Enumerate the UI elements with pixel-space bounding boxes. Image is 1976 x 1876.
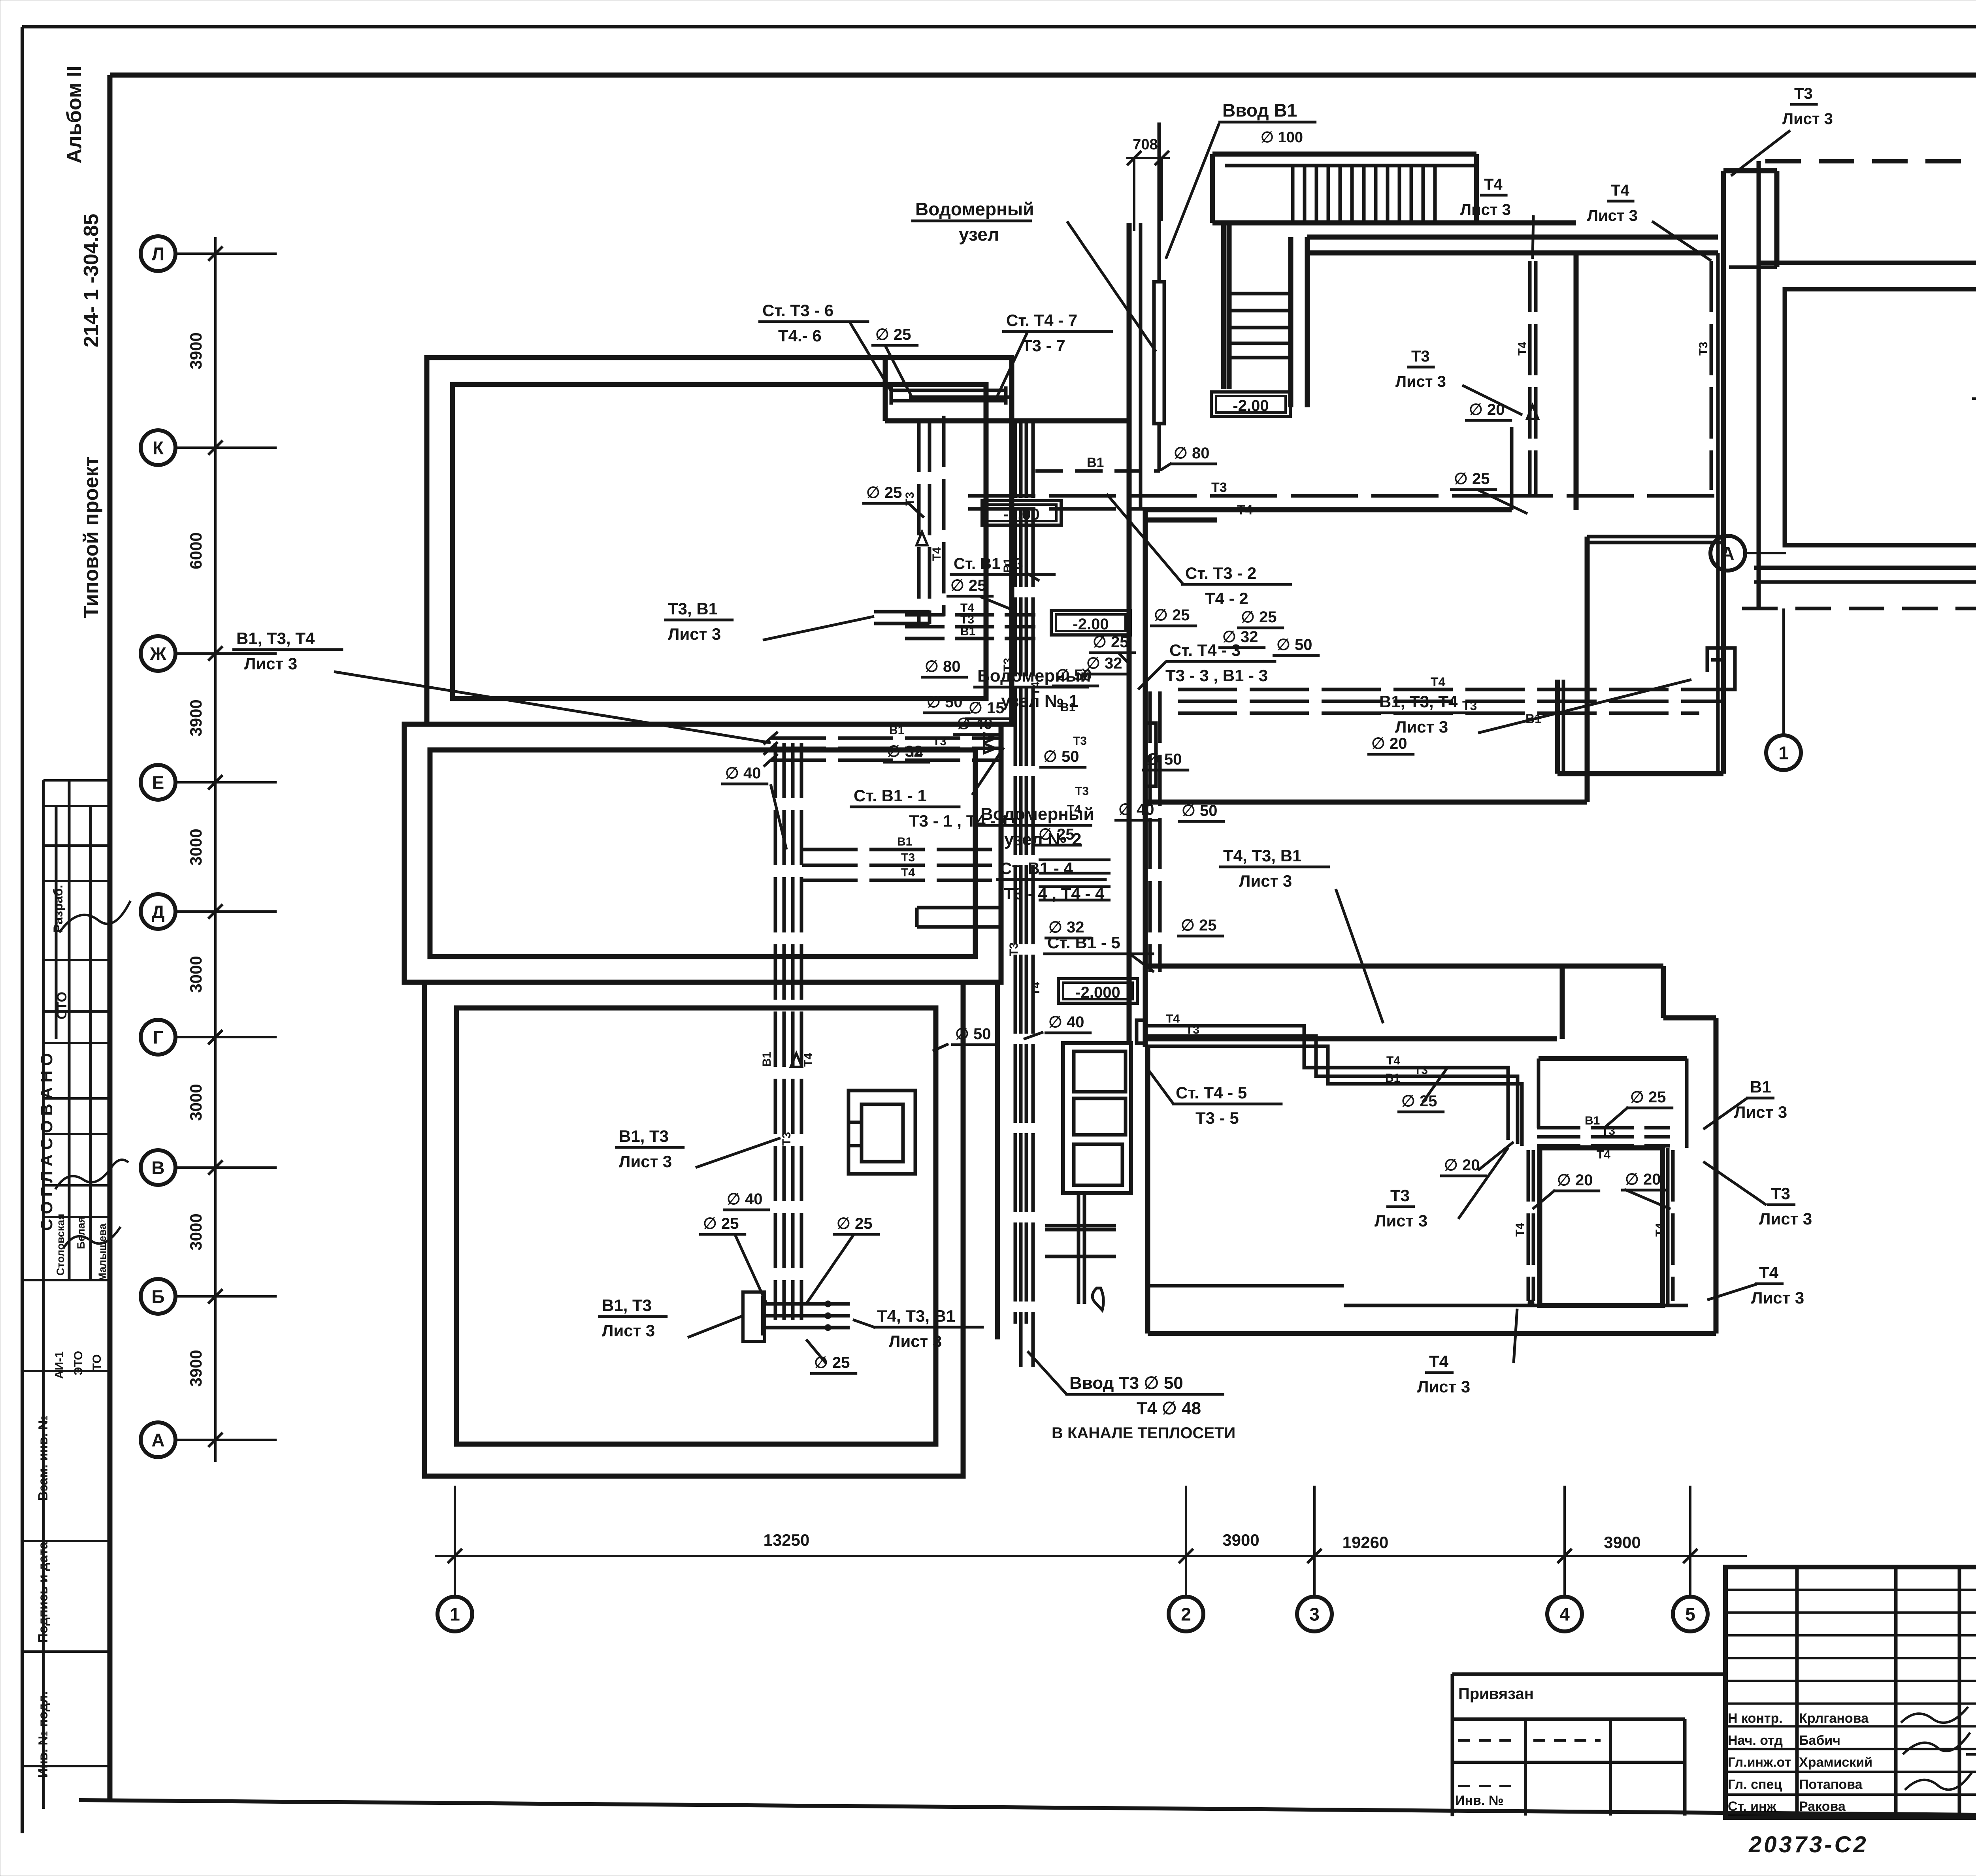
svg-text:∅ 50: ∅ 50	[1182, 802, 1217, 819]
svg-text:Лист 3: Лист 3	[889, 1332, 942, 1350]
svg-text:∅ 40: ∅ 40	[725, 765, 761, 782]
svg-text:Л: Л	[152, 244, 164, 264]
svg-text:∅ 25: ∅ 25	[1630, 1089, 1666, 1106]
svg-text:∅ 20: ∅ 20	[1371, 735, 1407, 752]
svg-text:∅ 25: ∅ 25	[866, 484, 902, 501]
svg-text:Ст. Т4 - 7: Ст. Т4 - 7	[1006, 311, 1077, 330]
svg-text:∅ 25: ∅ 25	[875, 326, 911, 343]
svg-text:∅ 50: ∅ 50	[955, 1025, 991, 1043]
svg-text:Ст. В1 - 4: Ст. В1 - 4	[1000, 859, 1073, 878]
svg-text:Т4: Т4	[1237, 503, 1253, 518]
svg-text:-2.00: -2.00	[1073, 616, 1109, 633]
svg-text:Б: Б	[151, 1286, 164, 1307]
svg-text:Т4: Т4	[1516, 342, 1529, 356]
svg-text:Т3: Т3	[1794, 85, 1813, 102]
svg-text:В1: В1	[889, 724, 904, 737]
svg-text:∅ 25: ∅ 25	[1154, 606, 1190, 624]
svg-text:Т3: Т3	[1601, 1124, 1615, 1138]
svg-text:1: 1	[1778, 743, 1789, 763]
svg-text:∅ 25: ∅ 25	[703, 1215, 739, 1232]
svg-text:∅ 50: ∅ 50	[1043, 748, 1079, 765]
svg-text:Крлганова: Крлганова	[1799, 1711, 1869, 1726]
svg-text:Инв. № подл.: Инв. № подл.	[36, 1691, 50, 1778]
svg-text:Т3 - 3 , В1 - 3: Т3 - 3 , В1 - 3	[1165, 666, 1268, 685]
svg-text:1: 1	[450, 1604, 460, 1625]
svg-text:∅ 25: ∅ 25	[1241, 608, 1276, 626]
svg-text:В КАНАЛЕ ТЕПЛОСЕТИ: В КАНАЛЕ ТЕПЛОСЕТИ	[1052, 1424, 1235, 1442]
svg-text:∅ 40: ∅ 40	[1048, 1013, 1084, 1031]
svg-text:Храмиский: Храмиский	[1799, 1755, 1872, 1770]
svg-text:А: А	[151, 1430, 164, 1450]
svg-text:В1, Т3, Т4: В1, Т3, Т4	[236, 629, 315, 648]
svg-text:ТО: ТО	[91, 1354, 104, 1371]
svg-text:Т4: Т4	[901, 866, 915, 879]
svg-text:3900: 3900	[1222, 1531, 1259, 1549]
svg-text:узел: узел	[959, 224, 999, 245]
svg-text:Д: Д	[152, 902, 165, 922]
svg-text:Водомерный: Водомерный	[977, 666, 1091, 686]
svg-text:Лист 3: Лист 3	[1395, 373, 1446, 390]
svg-text:Т3: Т3	[1414, 1064, 1428, 1077]
svg-text:В1: В1	[897, 835, 912, 848]
svg-text:Т3, В1: Т3, В1	[668, 599, 718, 618]
svg-text:Т3: Т3	[960, 613, 974, 626]
svg-text:Лист 3: Лист 3	[1460, 201, 1511, 218]
svg-text:В1, Т3, Т4: В1, Т3, Т4	[1379, 692, 1458, 711]
svg-text:∅ 40: ∅ 40	[727, 1190, 762, 1208]
svg-text:Привязан: Привязан	[1458, 1685, 1534, 1703]
svg-text:В1: В1	[1385, 1072, 1400, 1085]
svg-text:Малышева: Малышева	[96, 1223, 108, 1282]
svg-text:∅ 15: ∅ 15	[969, 699, 1004, 717]
svg-text:В: В	[151, 1158, 164, 1178]
svg-text:Т3: Т3	[1411, 348, 1430, 365]
svg-text:3900: 3900	[187, 1350, 205, 1386]
svg-text:узел № 1: узел № 1	[1001, 691, 1079, 711]
svg-text:Т3: Т3	[1186, 1023, 1199, 1036]
svg-text:Т3: Т3	[1211, 480, 1227, 495]
svg-text:3900: 3900	[187, 699, 205, 736]
svg-text:В1, Т3: В1, Т3	[619, 1127, 669, 1145]
svg-text:С О Г Л А С О В А Н О: С О Г Л А С О В А Н О	[37, 1053, 56, 1231]
svg-text:∅ 32: ∅ 32	[887, 743, 922, 760]
svg-text:∅ 25: ∅ 25	[837, 1215, 872, 1232]
svg-text:Гл. спец: Гл. спец	[1728, 1777, 1782, 1792]
svg-text:В1: В1	[760, 1052, 773, 1067]
svg-text:3900: 3900	[187, 332, 205, 369]
svg-text:Лист 3: Лист 3	[602, 1321, 655, 1340]
svg-text:Т3: Т3	[1075, 785, 1089, 798]
svg-text:3900: 3900	[1604, 1533, 1640, 1552]
svg-text:Н контр.: Н контр.	[1728, 1711, 1783, 1726]
svg-text:Бабич: Бабич	[1799, 1733, 1840, 1748]
svg-text:∅ 20: ∅ 20	[1469, 401, 1505, 418]
svg-text:Т4 - 2: Т4 - 2	[1205, 589, 1248, 608]
svg-text:Т4: Т4	[1029, 982, 1042, 996]
svg-text:Ст. В1 - 1: Ст. В1 - 1	[854, 786, 927, 805]
svg-text:Лист 3: Лист 3	[1751, 1288, 1804, 1307]
svg-text:3000: 3000	[187, 1084, 205, 1121]
svg-text:Т4: Т4	[960, 601, 974, 614]
svg-text:∅ 32: ∅ 32	[1048, 919, 1084, 936]
svg-text:3: 3	[1309, 1604, 1320, 1625]
svg-text:∅ 32: ∅ 32	[1222, 628, 1258, 646]
svg-text:В1: В1	[960, 625, 975, 638]
svg-text:-2.00: -2.00	[1003, 506, 1039, 523]
svg-text:Белая: Белая	[75, 1217, 87, 1249]
svg-text:Ст. инж: Ст. инж	[1728, 1799, 1777, 1814]
svg-text:Потапова: Потапова	[1799, 1777, 1863, 1792]
svg-text:Т4: Т4	[1484, 176, 1503, 193]
svg-text:Т4.- 6: Т4.- 6	[778, 326, 822, 345]
svg-text:3000: 3000	[187, 829, 205, 865]
svg-text:Г: Г	[153, 1027, 163, 1048]
svg-text:-2.00: -2.00	[1233, 397, 1269, 414]
svg-text:А: А	[1721, 543, 1734, 564]
svg-text:Подпись и дата: Подпись и дата	[36, 1542, 50, 1643]
svg-text:13250: 13250	[764, 1531, 810, 1549]
svg-text:19260: 19260	[1342, 1533, 1389, 1552]
svg-text:∅ 25: ∅ 25	[1039, 826, 1074, 843]
svg-text:Разраб.: Разраб.	[51, 885, 65, 932]
svg-text:Т4: Т4	[1611, 182, 1629, 199]
svg-text:3000: 3000	[187, 956, 205, 993]
svg-text:Ст. Т3 - 2: Ст. Т3 - 2	[1185, 564, 1256, 582]
svg-text:20373-С2: 20373-С2	[1748, 1832, 1869, 1857]
svg-text:Инв. №: Инв. №	[1455, 1793, 1504, 1808]
svg-text:АИ-1: АИ-1	[53, 1351, 66, 1379]
svg-text:Т4, Т3, В1: Т4, Т3, В1	[1223, 846, 1301, 865]
svg-text:-2.000: -2.000	[1075, 984, 1120, 1001]
svg-text:Т4: Т4	[1166, 1012, 1180, 1025]
svg-text:Т4: Т4	[1429, 1352, 1449, 1371]
svg-text:214- 1 -304.85: 214- 1 -304.85	[80, 214, 103, 347]
svg-text:Лист 3: Лист 3	[1759, 1209, 1812, 1228]
svg-text:Гл.инж.от: Гл.инж.от	[1728, 1755, 1791, 1770]
svg-text:Т3: Т3	[1073, 735, 1087, 748]
svg-text:В1: В1	[1087, 455, 1104, 470]
svg-text:Лист 3: Лист 3	[619, 1152, 672, 1171]
svg-text:Т3: Т3	[1771, 1184, 1790, 1203]
svg-text:∅ 50: ∅ 50	[1146, 751, 1182, 768]
svg-text:Лист 3: Лист 3	[1417, 1377, 1470, 1396]
svg-text:Т4: Т4	[802, 1053, 815, 1067]
svg-text:Т3: Т3	[780, 1132, 793, 1146]
svg-text:Ст. В1 - 3: Ст. В1 - 3	[954, 555, 1023, 573]
svg-text:Т4: Т4	[1514, 1223, 1527, 1237]
svg-text:Т4 ∅ 48: Т4 ∅ 48	[1137, 1399, 1201, 1418]
svg-text:∅ 80: ∅ 80	[1174, 445, 1209, 462]
svg-text:В1: В1	[1750, 1077, 1771, 1096]
svg-text:В1, Т3: В1, Т3	[602, 1296, 652, 1315]
svg-text:Т3 - 1 , Т4 - 1: Т3 - 1 , Т4 - 1	[909, 812, 1009, 830]
svg-text:Т3: Т3	[933, 735, 947, 748]
svg-text:∅ 20: ∅ 20	[1444, 1156, 1480, 1174]
svg-text:Т3: Т3	[1462, 699, 1477, 713]
svg-text:Т3 - 5: Т3 - 5	[1195, 1109, 1239, 1127]
svg-text:СТО: СТО	[55, 992, 70, 1019]
svg-text:Т4: Т4	[1431, 675, 1446, 689]
svg-text:Т4: Т4	[1759, 1263, 1779, 1282]
svg-text:Ракова: Ракова	[1799, 1799, 1846, 1814]
svg-text:Лист 3: Лист 3	[244, 654, 297, 673]
svg-text:Лист 3: Лист 3	[1734, 1103, 1787, 1121]
svg-text:В1: В1	[1585, 1114, 1600, 1127]
svg-text:Ввод В1: Ввод В1	[1222, 100, 1297, 121]
svg-text:Т4: Т4	[930, 547, 943, 561]
svg-text:К: К	[153, 438, 164, 458]
svg-text:Типовой проект: Типовой проект	[80, 456, 103, 618]
svg-text:Е: Е	[152, 772, 164, 793]
svg-text:∅ 50: ∅ 50	[927, 693, 962, 711]
svg-text:∅ 32: ∅ 32	[1086, 655, 1122, 672]
svg-text:Альбом II: Альбом II	[63, 66, 86, 164]
svg-text:Т3: Т3	[1390, 1186, 1410, 1205]
svg-text:Т3 - 4 , Т4 - 4: Т3 - 4 , Т4 - 4	[1004, 884, 1105, 903]
svg-text:Нач. отд: Нач. отд	[1728, 1733, 1783, 1748]
svg-text:Т3: Т3	[1697, 342, 1710, 356]
svg-text:Т4: Т4	[1654, 1223, 1667, 1237]
svg-text:Т4: Т4	[1597, 1148, 1610, 1161]
svg-text:Взам. инв. №: Взам. инв. №	[36, 1415, 50, 1501]
svg-text:Ж: Ж	[149, 644, 166, 664]
svg-text:∅ 100: ∅ 100	[1261, 129, 1303, 146]
svg-text:708: 708	[1133, 136, 1158, 153]
svg-text:Т4, Т3, В1: Т4, Т3, В1	[877, 1307, 955, 1325]
svg-text:∅ 80: ∅ 80	[925, 658, 960, 675]
svg-text:∅ 50: ∅ 50	[1276, 636, 1312, 654]
svg-text:∅ 25: ∅ 25	[1401, 1092, 1437, 1110]
svg-text:Водомерный: Водомерный	[915, 199, 1034, 219]
svg-text:Т4: Т4	[1386, 1054, 1400, 1067]
svg-text:4: 4	[1559, 1604, 1570, 1625]
svg-text:Ст. В1 - 5: Ст. В1 - 5	[1047, 933, 1120, 952]
svg-text:2: 2	[1181, 1604, 1191, 1625]
svg-text:Лист 3: Лист 3	[668, 625, 721, 643]
svg-text:Ст. Т3 - 6: Ст. Т3 - 6	[762, 301, 833, 320]
svg-text:∅ 25: ∅ 25	[1181, 917, 1216, 934]
svg-text:∅ 20: ∅ 20	[1625, 1171, 1661, 1188]
svg-text:Лист 3: Лист 3	[1375, 1211, 1427, 1230]
svg-text:5: 5	[1685, 1604, 1695, 1625]
svg-text:Лист 3: Лист 3	[1239, 872, 1292, 890]
svg-text:6000: 6000	[187, 532, 205, 569]
svg-text:Т3: Т3	[901, 851, 915, 864]
svg-text:3000: 3000	[187, 1213, 205, 1250]
svg-text:ЭТО: ЭТО	[72, 1351, 85, 1375]
svg-text:Т3 - 7: Т3 - 7	[1022, 336, 1065, 355]
svg-text:Лист 3: Лист 3	[1782, 110, 1833, 128]
svg-text:∅ 25: ∅ 25	[950, 577, 986, 594]
svg-text:Ввод Т3 ∅ 50: Ввод Т3 ∅ 50	[1069, 1373, 1183, 1393]
svg-text:Лист 3: Лист 3	[1395, 718, 1448, 736]
svg-text:Лист 3: Лист 3	[1587, 207, 1638, 224]
svg-text:∅ 20: ∅ 20	[1557, 1172, 1593, 1189]
svg-text:Т3: Т3	[1007, 942, 1020, 956]
svg-text:Ст. Т4 - 5: Ст. Т4 - 5	[1176, 1083, 1247, 1102]
svg-text:∅ 25: ∅ 25	[1454, 470, 1490, 488]
svg-text:∅ 40: ∅ 40	[1118, 801, 1154, 818]
